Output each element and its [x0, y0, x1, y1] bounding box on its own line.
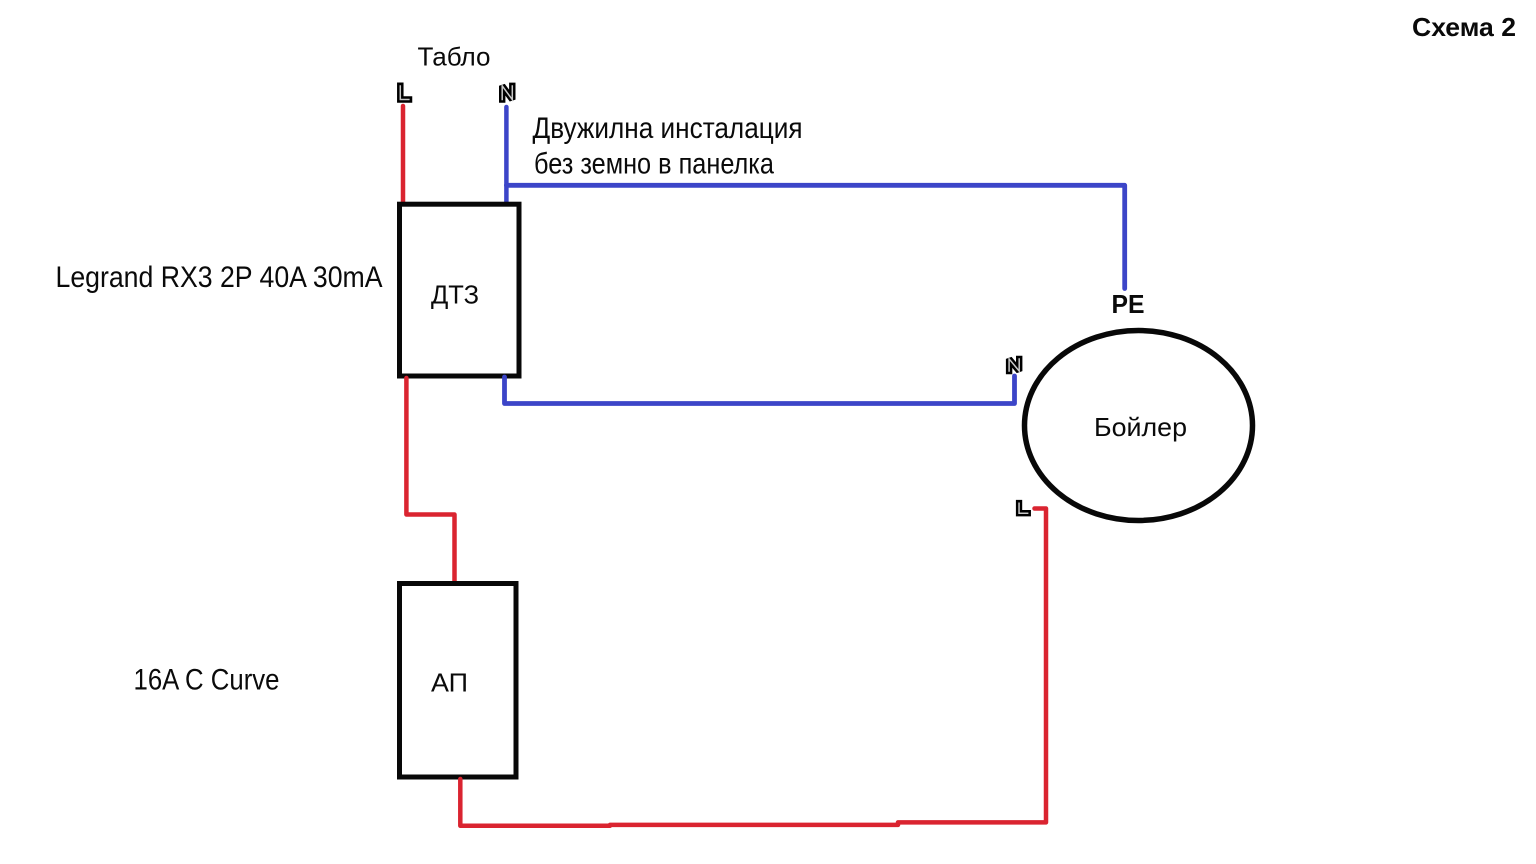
terminal label L (boiler) — [1019, 503, 1028, 514]
svg-text:16A C Curve: 16A C Curve — [134, 664, 280, 697]
svg-text:Схема 2: Схема 2 — [1412, 12, 1516, 42]
svg-text:АП: АП — [431, 668, 468, 698]
wire: blue from ДТЗ bottom to boiler N — [505, 376, 1015, 404]
wire: blue from N node to boiler PE — [506, 185, 1124, 288]
svg-text:Бойлер: Бойлер — [1094, 412, 1187, 442]
wire: red from АП bottom to boiler L — [460, 509, 1046, 826]
svg-text:ДТЗ: ДТЗ — [431, 280, 479, 310]
wire: red from ДТЗ bottom to АП top — [406, 378, 454, 583]
svg-text:без земно в панелка: без земно в панелка — [534, 148, 774, 181]
RCD box ДТЗ — [400, 204, 520, 376]
breaker box АП — [400, 584, 517, 778]
wire: blue N from panel to ДТЗ — [504, 107, 509, 204]
svg-text:Табло: Табло — [418, 42, 491, 72]
svg-text:PE: PE — [1112, 289, 1145, 319]
boiler ellipse — [1025, 331, 1253, 521]
terminal label N (boiler) — [1009, 358, 1019, 371]
svg-text:Двужилна инсталация: Двужилна инсталация — [533, 112, 803, 145]
wire: red L from panel to ДТЗ — [401, 106, 406, 204]
svg-text:Legrand RX3 2P 40A 30mA: Legrand RX3 2P 40A 30mA — [56, 261, 383, 294]
terminal label L (panel) — [400, 85, 409, 99]
terminal label N (panel) — [502, 85, 512, 100]
